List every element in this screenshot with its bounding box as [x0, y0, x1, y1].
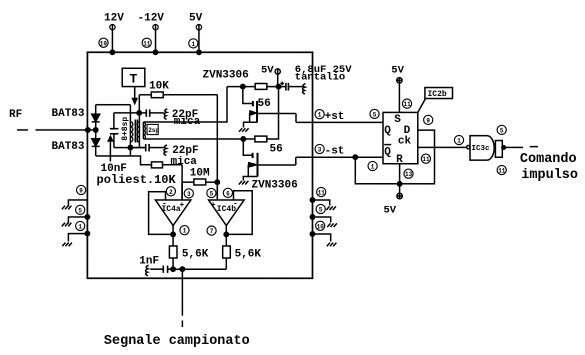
pin 1 circle — [189, 39, 198, 48]
svg-text:+: + — [179, 201, 184, 210]
pin 6 circle — [223, 188, 232, 197]
right stub 1 — [312, 200, 329, 206]
wire 5V to S — [398, 83, 400, 112]
svg-text:Q: Q — [384, 125, 391, 137]
outer loop bottom wire — [96, 156, 152, 165]
junction rail gate1 — [241, 84, 245, 88]
svg-text:-: - — [233, 199, 238, 208]
Segnale campionato label — [104, 334, 250, 349]
svg-text:Segnale campionato: Segnale campionato — [104, 334, 250, 349]
R label — [396, 154, 403, 166]
capacitor 1nF — [150, 266, 173, 273]
Q label — [384, 125, 391, 137]
svg-text:13: 13 — [405, 171, 413, 178]
+st label — [325, 111, 345, 123]
pin 7 circle — [207, 226, 216, 235]
pin 11 circle — [142, 38, 151, 47]
6,8uF 25V label — [295, 64, 352, 76]
junction IC4a out — [171, 232, 175, 236]
wire 5V to rail — [277, 74, 279, 87]
5V bottom FF label — [383, 205, 396, 217]
ground right 1 — [326, 206, 336, 210]
poliest. 10K label — [96, 173, 176, 187]
ground hook 1nF — [146, 265, 149, 275]
impulso label — [521, 168, 578, 183]
gate drive line lower — [143, 138, 243, 140]
Qbar label — [384, 147, 391, 159]
BAT83 label upper — [52, 108, 85, 120]
pin 1 circle FF Qbar — [368, 161, 377, 170]
5V bottom FF terminal — [397, 193, 402, 198]
junction R loop — [397, 182, 401, 186]
svg-text:mica: mica — [171, 156, 198, 168]
left stub 3 — [68, 234, 87, 242]
pin 3 circle opamp — [184, 189, 193, 198]
12V label — [104, 12, 124, 24]
outer loop top wire — [96, 104, 131, 106]
left stub pin 5 — [76, 205, 85, 214]
RF lead dash — [17, 129, 28, 131]
wire drain1 to +st — [295, 114, 297, 123]
left stub 1 — [68, 200, 87, 207]
dash comando — [530, 146, 538, 148]
22pF label bottom — [172, 145, 198, 157]
svg-text:5,6K: 5,6K — [235, 248, 262, 260]
5V terminal top — [196, 24, 201, 29]
IC2b callout line — [418, 99, 426, 113]
svg-text:11: 11 — [404, 101, 412, 108]
pin 19 circle — [99, 38, 108, 47]
svg-text:mica: mica — [174, 116, 201, 128]
ground right 3 — [327, 243, 337, 247]
transformer primary winding 8+8sp right half — [137, 113, 140, 148]
opamp IC4a — [155, 199, 191, 225]
svg-text:5,6K: 5,6K — [182, 248, 209, 260]
right stub pin 11 — [317, 187, 326, 196]
IC4b feedback loop — [226, 191, 252, 235]
-st label — [325, 146, 345, 158]
ground left 2 — [62, 223, 72, 227]
capacitor 22pF mica bottom — [130, 144, 164, 152]
10K label — [149, 80, 169, 92]
10nF inner loop wires — [114, 113, 146, 148]
pin 11 circle S — [402, 99, 411, 108]
right stub pin 5 — [316, 204, 325, 213]
svg-text:10M: 10M — [190, 167, 210, 179]
pin 5 circle — [207, 188, 216, 197]
transformer primary winding 8+8sp left half — [130, 105, 133, 156]
svg-text:10K: 10K — [149, 80, 169, 92]
wire drain2 to -st — [295, 157, 297, 165]
-12V terminal — [153, 24, 158, 29]
ground hook 22pF bottom — [164, 145, 167, 155]
2sp label box — [147, 124, 159, 134]
right stub 2 — [312, 217, 330, 223]
svg-text:3: 3 — [318, 147, 322, 154]
wire -st — [296, 156, 383, 158]
wire rail to 56 bottom — [267, 87, 279, 139]
pin 1 circle +st — [315, 110, 324, 119]
left stub pin 1 — [76, 221, 85, 230]
svg-text:Comando: Comando — [520, 152, 577, 167]
pin 13 circle R — [404, 169, 413, 178]
wire +st — [296, 121, 383, 123]
ground hook 22pF top — [164, 109, 167, 119]
1nF label — [139, 255, 159, 267]
MOSFET Q1 ZVN3306 — [243, 87, 296, 128]
Qbar overline — [384, 144, 391, 146]
mica label bottom — [171, 156, 198, 168]
junction right stub1 — [310, 198, 314, 202]
pin 2 circle — [166, 187, 175, 196]
svg-text:ZVN3306: ZVN3306 — [251, 179, 297, 191]
wire 10K left drop — [138, 95, 140, 113]
T probe box — [122, 68, 145, 86]
pin 1 circle opamp out — [180, 226, 189, 235]
svg-text:ck: ck — [398, 136, 412, 148]
5V terminal mid — [275, 69, 280, 74]
transformer secondary winding 2sp — [143, 122, 145, 139]
22pF label top — [172, 109, 198, 121]
svg-text:1nF: 1nF — [139, 255, 159, 267]
pin 11 circle ck — [421, 154, 430, 163]
D label — [404, 125, 411, 137]
svg-text:5V: 5V — [391, 64, 404, 76]
right stub 3 — [312, 234, 330, 242]
MOSFET Q2 ZVN3306 — [243, 139, 296, 181]
56 label top — [258, 98, 271, 110]
wire -12V to box — [155, 30, 157, 52]
junction transformer top — [137, 111, 141, 115]
resistor R 10K top — [139, 92, 217, 98]
tantalio label — [295, 71, 345, 83]
svg-text:1: 1 — [192, 41, 196, 48]
svg-text:tantalio: tantalio — [295, 71, 345, 83]
wire IC4b output — [225, 225, 227, 246]
5V rail — [227, 86, 286, 88]
wire 5V to box — [198, 30, 200, 52]
wire R to 5V — [399, 164, 401, 194]
junction left stub3 — [85, 231, 89, 235]
flipflop IC2b box — [383, 112, 418, 163]
Comando label — [520, 152, 577, 167]
S label — [394, 114, 401, 126]
wire 56 bottom left — [243, 138, 255, 140]
wire IC4b+ input — [216, 182, 218, 200]
RF label — [9, 109, 22, 121]
svg-text:5: 5 — [373, 111, 377, 118]
junction rail 5V — [276, 84, 280, 88]
gate drive line upper — [143, 87, 227, 122]
svg-text:T: T — [130, 71, 138, 86]
svg-text:11: 11 — [143, 40, 151, 47]
svg-text:8+8sp: 8+8sp — [121, 117, 130, 141]
sampler module box — [87, 52, 312, 278]
svg-text:6: 6 — [226, 190, 230, 197]
svg-text:9: 9 — [426, 117, 430, 124]
wire bias vertical — [216, 95, 218, 200]
transformer core — [135, 119, 137, 142]
svg-text:5: 5 — [210, 190, 214, 197]
svg-text:11: 11 — [498, 168, 506, 175]
junction IC4b out — [224, 232, 228, 236]
resistor 5,6K left — [169, 246, 177, 269]
diode D1 BAT83 — [92, 114, 100, 122]
5V top FF label — [391, 64, 404, 76]
ck label — [398, 136, 412, 148]
ZVN3306 label bottom — [251, 179, 297, 191]
svg-text:1: 1 — [457, 138, 461, 145]
svg-text:+st: +st — [325, 111, 345, 123]
mica label top — [174, 116, 201, 128]
svg-text:S: S — [394, 114, 401, 126]
10M label — [190, 167, 210, 179]
capacitor 22pF mica top — [139, 109, 164, 117]
ground hook 6.8uF — [303, 84, 306, 94]
wire 12V to box — [111, 30, 113, 52]
capacitor C 10nF — [110, 129, 119, 134]
diode string wire — [95, 105, 97, 156]
svg-text:3: 3 — [187, 191, 191, 198]
junction transformer bottom — [128, 145, 132, 149]
svg-text:poliest.10K: poliest.10K — [96, 173, 176, 187]
RF wire — [36, 129, 96, 131]
svg-text:impulso: impulso — [521, 168, 578, 183]
10nF label — [101, 163, 127, 175]
5,6K label right — [235, 248, 262, 260]
wire D loop — [355, 130, 434, 184]
junction sum mid — [180, 267, 184, 271]
svg-text:5V: 5V — [261, 64, 274, 76]
pin 1 circle gate in — [454, 135, 463, 144]
resistor R 10M — [182, 179, 217, 185]
opamp IC4b — [209, 199, 245, 225]
T callout arrow — [133, 87, 137, 104]
5V top FF terminal — [397, 78, 402, 83]
junction right stub2 — [310, 215, 314, 219]
left stub 2 — [68, 217, 87, 224]
gate IC3c — [467, 136, 503, 161]
svg-text:1: 1 — [318, 112, 322, 119]
plus sign 6.8uF — [280, 82, 284, 86]
svg-text:BAT83: BAT83 — [52, 108, 85, 120]
ZVN3306 label top — [203, 69, 249, 81]
junction gate out — [502, 146, 506, 150]
svg-text:IC3c: IC3c — [472, 145, 491, 153]
BAT83 label lower — [52, 141, 85, 153]
ground Q2 — [239, 181, 249, 185]
pin 3 circle -st — [315, 144, 324, 153]
resistor 5,6K right — [223, 246, 231, 269]
svg-text:+: + — [211, 201, 216, 210]
svg-text:1: 1 — [371, 164, 375, 171]
svg-text:ZVN3306: ZVN3306 — [203, 69, 249, 81]
svg-text:19: 19 — [100, 40, 108, 47]
wire ck to gate — [418, 146, 467, 148]
wire IC4a output — [172, 225, 174, 246]
svg-text:10: 10 — [317, 223, 325, 230]
diode D2 BAT83 — [92, 139, 100, 147]
IC2b label box — [425, 88, 453, 100]
svg-text:5: 5 — [78, 207, 82, 214]
svg-text:5V: 5V — [383, 205, 396, 217]
resistor 10K poliest — [152, 162, 183, 168]
wire IC4a+ input — [181, 182, 183, 200]
svg-text:-: - — [162, 199, 167, 208]
56 label bottom — [270, 143, 283, 155]
left stub pin 9 — [76, 185, 85, 194]
ground right 2 — [327, 223, 337, 227]
5,6K label left — [182, 248, 209, 260]
junction sum left — [171, 267, 175, 271]
wire 10K2 to 10M drop — [181, 165, 183, 200]
svg-text:11: 11 — [422, 156, 430, 163]
svg-text:2: 2 — [169, 189, 173, 196]
svg-text:5: 5 — [319, 207, 323, 214]
svg-text:BAT83: BAT83 — [52, 141, 85, 153]
junction RF at box edge — [86, 128, 90, 132]
10nF callout arrow — [108, 136, 112, 161]
ground left 1 — [62, 206, 72, 210]
junction left stub2 — [85, 215, 89, 219]
12V terminal — [110, 24, 115, 29]
svg-text:-st: -st — [325, 146, 345, 158]
svg-text:Q: Q — [384, 147, 391, 159]
svg-text:5V: 5V — [189, 12, 203, 24]
sampled signal wire — [181, 269, 183, 327]
svg-text:RF: RF — [9, 109, 22, 121]
pin 5 circle FF Q — [370, 109, 379, 118]
5V label top — [189, 12, 203, 24]
junction right stub3 — [310, 232, 314, 236]
junction RF diode node — [94, 128, 98, 132]
svg-text:56: 56 — [258, 98, 271, 110]
svg-text:1: 1 — [78, 223, 82, 230]
-12V label — [138, 12, 165, 24]
summing wire — [173, 268, 226, 270]
resistor 56 top — [255, 83, 267, 89]
svg-text:11: 11 — [318, 190, 326, 197]
8+8sp label — [121, 117, 130, 141]
ground left 3 — [62, 243, 72, 247]
junction bias 10M — [215, 180, 219, 184]
resistor 56 bottom — [255, 136, 267, 142]
svg-text:1: 1 — [183, 228, 187, 235]
junction gate2 — [241, 137, 245, 141]
right stub pin 10 — [316, 221, 325, 230]
junction -12V — [153, 50, 157, 54]
svg-text:12V: 12V — [104, 12, 124, 24]
5V label mid — [261, 64, 274, 76]
capacitor 6.8uF tantalio — [286, 83, 304, 91]
pin 11 circle gate bottom — [497, 165, 506, 174]
pin 5 circle gate top — [497, 125, 506, 134]
svg-text:7: 7 — [210, 228, 214, 235]
svg-text:IC2b: IC2b — [428, 90, 447, 99]
svg-text:2sp: 2sp — [148, 127, 159, 134]
junction 5V — [197, 50, 201, 54]
junction 12V — [110, 50, 114, 54]
junction -st D loop — [353, 155, 357, 159]
svg-text:9: 9 — [79, 187, 83, 194]
svg-text:-12V: -12V — [138, 12, 165, 24]
IC4a feedback loop — [149, 192, 174, 235]
svg-text:5: 5 — [500, 127, 504, 134]
pin 9 circle D — [424, 115, 433, 124]
wire gate out — [502, 146, 523, 148]
svg-text:56: 56 — [270, 143, 283, 155]
ground Q1 — [239, 128, 249, 132]
